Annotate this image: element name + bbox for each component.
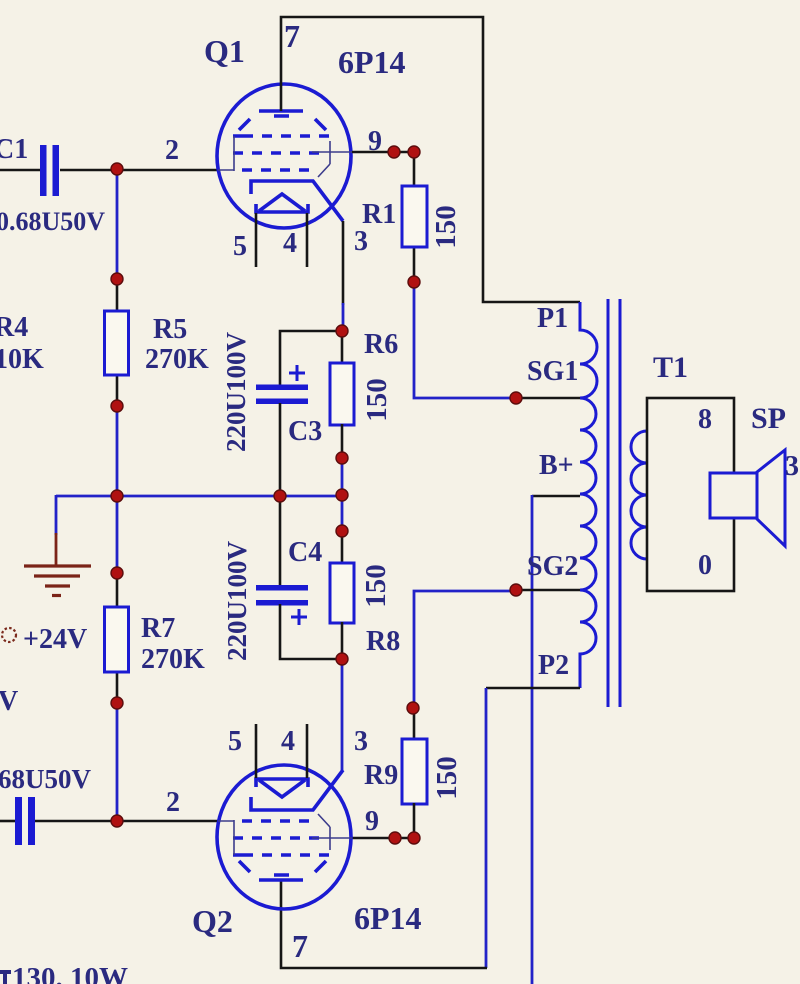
svg-text:220U100V: 220U100V bbox=[222, 541, 252, 661]
resistor R9 bbox=[402, 739, 427, 804]
node dot above R7 bbox=[111, 567, 123, 579]
heater pin 5 stub bbox=[255, 213, 258, 267]
wire node to R6 bbox=[341, 330, 344, 364]
tube Q1 bbox=[217, 84, 352, 228]
svg-text:4: 4 bbox=[281, 726, 295, 757]
grid lead g1 bbox=[218, 136, 234, 171]
capacitor C1 bbox=[40, 145, 59, 196]
svg-text:5: 5 bbox=[228, 726, 242, 757]
g2 lead to pin 9 bbox=[312, 141, 352, 177]
svg-text:6P14: 6P14 bbox=[338, 44, 406, 80]
svg-text:C3: C3 bbox=[288, 416, 322, 447]
wire R6 to R8 bbox=[341, 457, 344, 532]
node dot cathode Q1 bbox=[336, 325, 348, 337]
svg-text:3: 3 bbox=[354, 226, 368, 257]
tube Q2 bbox=[217, 765, 352, 909]
node dot below R1 bbox=[408, 276, 420, 288]
svg-text:130. 10W: 130. 10W bbox=[12, 962, 128, 984]
grid top arc dashes bbox=[239, 116, 326, 130]
wire P2 tap bbox=[486, 687, 580, 690]
wire R1 bottom bbox=[413, 247, 416, 282]
svg-text:B+: B+ bbox=[539, 450, 574, 481]
transformer T1 primary winding bbox=[580, 302, 597, 688]
svg-text:220U100V: 220U100V bbox=[221, 332, 251, 452]
svg-text:R1: R1 bbox=[362, 199, 396, 230]
anode bar bbox=[259, 878, 303, 882]
node dot below R6 bbox=[336, 452, 348, 464]
wire SG1 tap bbox=[515, 397, 581, 400]
svg-text:270K: 270K bbox=[145, 344, 209, 375]
resistor R7 bbox=[105, 607, 129, 672]
svg-text:V: V bbox=[0, 686, 18, 717]
wire cathode Q1 to node bbox=[342, 221, 345, 305]
svg-text:68U50V: 68U50V bbox=[0, 764, 91, 794]
svg-text:5: 5 bbox=[233, 231, 247, 262]
svg-text:8: 8 bbox=[698, 404, 712, 435]
svg-text:150: 150 bbox=[431, 756, 463, 800]
wire C4 bottom jog bbox=[280, 604, 342, 659]
wire ground drop bbox=[55, 495, 58, 535]
envelope bbox=[217, 84, 351, 228]
wire C1 to node 2 bbox=[60, 169, 218, 172]
ground bbox=[24, 566, 91, 596]
heater base bar bbox=[256, 779, 308, 787]
node dot above R8 bbox=[336, 525, 348, 537]
wire input 2 left bbox=[0, 820, 15, 823]
svg-text:4: 4 bbox=[283, 228, 297, 259]
heater pin 5 stub bbox=[255, 724, 258, 778]
cathode bar bbox=[251, 181, 343, 221]
svg-text:7: 7 bbox=[292, 928, 308, 964]
node dot SG1 bbox=[510, 392, 522, 404]
wire R1 top bbox=[413, 152, 416, 186]
wire anode Q2 to P2 bbox=[281, 880, 487, 968]
wire R1 to SG1 bbox=[414, 282, 517, 398]
node dot pin9 Q2 a bbox=[389, 832, 401, 844]
wire left rail x=117 (blue and black segments) bbox=[116, 169, 119, 279]
svg-text:R4: R4 bbox=[0, 312, 28, 343]
node dot ground rail bbox=[111, 490, 123, 502]
grid row 2 dashes bbox=[233, 151, 319, 155]
wire R6 bottom bbox=[341, 424, 344, 459]
node dot pin9 Q2 b bbox=[408, 832, 420, 844]
svg-text:3: 3 bbox=[785, 451, 799, 482]
wire SG2 tap bbox=[515, 589, 581, 592]
wire input to C1 bbox=[0, 169, 40, 172]
svg-text:150: 150 bbox=[360, 564, 392, 608]
svg-text:0: 0 bbox=[698, 550, 712, 581]
wire C3 bottom bbox=[279, 403, 282, 497]
svg-text:R5: R5 bbox=[153, 314, 187, 345]
wire C2 to node bbox=[35, 820, 218, 823]
node dot above R9 bbox=[407, 702, 419, 714]
svg-text:6P14: 6P14 bbox=[354, 900, 422, 936]
svg-text:+24V: +24V bbox=[23, 624, 87, 655]
node dot above R5 bbox=[111, 273, 123, 285]
svg-text:C4: C4 bbox=[288, 537, 322, 568]
node dot C1/R5 bbox=[111, 163, 123, 175]
capacitor C3 bbox=[256, 365, 308, 404]
wire ground net horizontal bbox=[56, 495, 342, 498]
grid row 2 dashes bbox=[233, 836, 319, 840]
wire pin9 Q1 bbox=[352, 151, 414, 154]
cathode bar bbox=[251, 770, 343, 810]
wire anode Q1 to P1 bbox=[281, 17, 580, 302]
node +24V terminal circle bbox=[2, 628, 16, 642]
wire R9 top bbox=[413, 708, 416, 740]
grid row 1 dashes bbox=[233, 134, 329, 138]
svg-text:2: 2 bbox=[165, 135, 179, 166]
svg-text:2: 2 bbox=[166, 787, 180, 818]
grid row 1 dashes bbox=[233, 853, 329, 857]
node dot C2/Q2 grid bbox=[111, 815, 123, 827]
heater base bar bbox=[256, 204, 308, 212]
transformer core bbox=[608, 299, 620, 707]
grid lead g1 bbox=[218, 820, 234, 855]
heater chevron bbox=[259, 780, 305, 797]
svg-text:3: 3 bbox=[354, 726, 368, 757]
heater chevron bbox=[259, 194, 305, 211]
grid bottom arc dashes bbox=[239, 861, 326, 875]
speaker SP magnet box bbox=[710, 473, 757, 518]
svg-text:P1: P1 bbox=[537, 303, 568, 334]
node dot ground/R6R8 bbox=[336, 489, 348, 501]
svg-text:10K: 10K bbox=[0, 344, 44, 375]
node dot SG2 bbox=[510, 584, 522, 596]
envelope bbox=[217, 765, 351, 909]
svg-text:P2: P2 bbox=[538, 650, 569, 681]
svg-text:SP: SP bbox=[751, 402, 786, 435]
resistor R1 bbox=[402, 186, 427, 247]
svg-text:7: 7 bbox=[284, 18, 300, 54]
label P2 wire down bbox=[485, 688, 488, 968]
svg-text:T1: T1 bbox=[653, 351, 688, 384]
wire to cathode Q2 bbox=[341, 658, 344, 772]
svg-text:SG2: SG2 bbox=[527, 551, 578, 582]
wire to R8 top bbox=[341, 531, 344, 564]
svg-text:270K: 270K bbox=[141, 644, 205, 675]
heater pin 4 stub bbox=[306, 213, 309, 267]
svg-text:R7: R7 bbox=[141, 613, 175, 644]
svg-text:R6: R6 bbox=[364, 329, 398, 360]
svg-text:C1: C1 bbox=[0, 134, 28, 165]
wire R9 bottom bbox=[413, 803, 416, 838]
g2 lead to pin 9 bbox=[312, 814, 352, 850]
node dot pin9 Q1 a bbox=[388, 146, 400, 158]
svg-text:0.68U50V: 0.68U50V bbox=[0, 207, 105, 236]
node dot C3 bottom bbox=[274, 490, 286, 502]
wire R8 bottom bbox=[341, 622, 344, 660]
anode bar bbox=[259, 109, 303, 113]
wire B+ tap bbox=[532, 495, 580, 498]
wire B+ rail down bbox=[531, 495, 534, 984]
grid row 3 dashes bbox=[242, 819, 309, 823]
resistor R5 bbox=[105, 311, 129, 375]
wire SG2 from R9 bbox=[414, 591, 517, 708]
wire pin9 Q2 bbox=[352, 837, 414, 840]
node dot cathode Q2 bbox=[336, 653, 348, 665]
secondary load box bbox=[647, 398, 734, 591]
node dot pin9 Q1 b bbox=[408, 146, 420, 158]
resistor R8 bbox=[330, 563, 354, 623]
transformer T1 secondary winding bbox=[631, 431, 647, 559]
svg-text:150: 150 bbox=[361, 378, 393, 422]
bottom text partial glyph bbox=[0, 970, 11, 974]
resistor R6 bbox=[330, 363, 354, 425]
grid row 3 dashes bbox=[242, 168, 309, 172]
svg-text:Q1: Q1 bbox=[204, 33, 245, 69]
svg-text:SG1: SG1 bbox=[527, 356, 578, 387]
svg-text:Q2: Q2 bbox=[192, 903, 233, 939]
heater pin 4 stub bbox=[306, 724, 309, 778]
capacitor C2 bbox=[15, 797, 35, 845]
svg-text:150: 150 bbox=[430, 205, 462, 249]
node dot below R7 bbox=[111, 697, 123, 709]
wire C4 top bbox=[279, 496, 282, 586]
speaker SP cone bbox=[757, 450, 785, 546]
node dot below R5 bbox=[111, 400, 123, 412]
svg-text:9: 9 bbox=[365, 806, 379, 837]
capacitor C4 bbox=[256, 585, 308, 625]
capacitor C3 jog wire bbox=[280, 331, 343, 386]
svg-text:R9: R9 bbox=[364, 760, 398, 791]
svg-text:R8: R8 bbox=[366, 626, 400, 657]
